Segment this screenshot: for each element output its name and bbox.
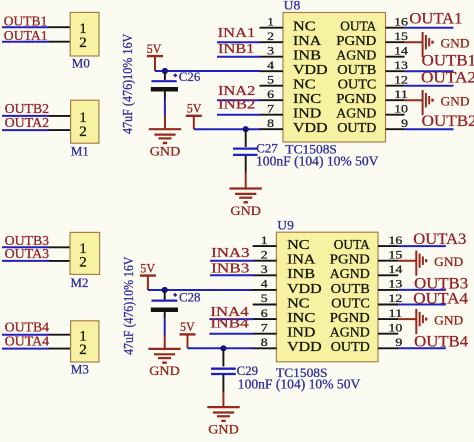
wire INB1 to U8 pin 3 bbox=[217, 56, 260, 58]
power port 5V (lower left) bbox=[140, 261, 156, 290]
wire 5V to U9 pin 8 (VDD) bbox=[188, 347, 254, 349]
connector M3 body bbox=[71, 321, 99, 362]
wire INA4 to U9 pin 6 bbox=[209, 318, 253, 320]
U8 pin 1 (NC) bbox=[260, 16, 316, 33]
ground GND at U9 pins 11/10 bbox=[398, 309, 463, 334]
power port 5V (upper mid) bbox=[186, 102, 202, 130]
svg-text:OUTB1: OUTB1 bbox=[422, 53, 474, 70]
svg-text:5V: 5V bbox=[180, 320, 195, 334]
svg-text:5V: 5V bbox=[140, 261, 155, 275]
svg-text:GND: GND bbox=[434, 255, 463, 269]
wire U8 pin 16 OUTA1 bbox=[405, 27, 454, 29]
svg-text:3: 3 bbox=[267, 45, 274, 57]
wire INA1 to U8 pin 2 bbox=[217, 41, 260, 43]
ground stub (under C27) bbox=[245, 173, 247, 189]
svg-text:INA: INA bbox=[293, 33, 321, 48]
svg-text:OUTB: OUTB bbox=[337, 62, 376, 77]
svg-text:PGND: PGND bbox=[336, 33, 376, 48]
junction at C26/VDD node bbox=[162, 68, 168, 74]
svg-text:13: 13 bbox=[394, 60, 408, 72]
svg-text:INB2: INB2 bbox=[218, 97, 255, 112]
svg-text:7: 7 bbox=[261, 322, 268, 334]
M3 pin 1 bbox=[49, 334, 71, 336]
svg-text:AGND: AGND bbox=[336, 48, 376, 63]
svg-text:NC: NC bbox=[293, 19, 316, 34]
svg-text:4: 4 bbox=[267, 60, 274, 72]
capacitor C27 plate 1 bbox=[233, 147, 258, 149]
wire OUTA3 to M2 bbox=[2, 260, 49, 262]
U8 pin 9 (OUTD) bbox=[337, 118, 408, 135]
connector M1 body bbox=[71, 100, 99, 143]
U9 pin 6 (INC) bbox=[253, 308, 316, 325]
U8 pin 14 (AGND) bbox=[336, 45, 408, 62]
svg-text:VDD: VDD bbox=[287, 339, 322, 354]
junction at C27/VDD node bbox=[243, 126, 249, 132]
svg-text:OUTB2: OUTB2 bbox=[5, 102, 50, 117]
capacitor C29 plate 2 bbox=[211, 373, 236, 375]
ground GND (under C27) bbox=[230, 189, 262, 218]
svg-text:OUTC: OUTC bbox=[338, 77, 377, 92]
ground GND (under C28) bbox=[148, 349, 180, 378]
svg-text:IND: IND bbox=[293, 106, 321, 121]
svg-text:8: 8 bbox=[267, 118, 274, 130]
svg-text:OUTA: OUTA bbox=[334, 237, 370, 252]
svg-text:INC: INC bbox=[287, 310, 315, 325]
svg-text:5: 5 bbox=[261, 293, 268, 305]
svg-text:13: 13 bbox=[388, 279, 402, 291]
connector M2 body bbox=[70, 232, 100, 274]
svg-text:TC1508S: TC1508S bbox=[276, 365, 328, 380]
svg-text:M2: M2 bbox=[71, 275, 89, 290]
svg-text:5V: 5V bbox=[187, 102, 202, 116]
U9 pin 10 (AGND) bbox=[330, 322, 403, 339]
connector M0 body bbox=[70, 12, 99, 56]
capacitor C27 stub top bbox=[245, 130, 247, 147]
U9 pin 5 (NC) bbox=[253, 293, 310, 310]
svg-text:OUTA2: OUTA2 bbox=[5, 116, 50, 131]
svg-text:7: 7 bbox=[267, 103, 274, 115]
wire U9 pin 13 OUTB3 bbox=[398, 289, 446, 291]
svg-text:GND: GND bbox=[230, 203, 261, 218]
U9 pin 9 (OUTD) bbox=[331, 337, 403, 354]
svg-text:11: 11 bbox=[394, 89, 408, 101]
U8 pin 11 (PGND) bbox=[336, 89, 408, 106]
svg-text:OUTA: OUTA bbox=[340, 19, 376, 34]
svg-text:PGND: PGND bbox=[330, 310, 370, 325]
wire OUTB3 to M2 bbox=[2, 246, 49, 248]
svg-text:OUTC: OUTC bbox=[331, 295, 370, 310]
svg-text:47uF (476)10% 16V: 47uF (476)10% 16V bbox=[121, 256, 137, 354]
svg-text:U8: U8 bbox=[284, 0, 301, 13]
U8 pin 8 (VDD) bbox=[260, 118, 328, 135]
U9 pin 11 (PGND) bbox=[330, 308, 403, 325]
svg-text:TC1508S: TC1508S bbox=[285, 142, 337, 157]
wire OUTA4 to M3 bbox=[2, 348, 49, 350]
capacitor C27 plate 2 bbox=[233, 154, 258, 156]
svg-text:PGND: PGND bbox=[336, 91, 376, 106]
svg-text:NC: NC bbox=[287, 237, 310, 252]
ground stub (under C29) bbox=[222, 392, 224, 407]
wire C26 to GND bbox=[164, 99, 166, 116]
capacitor C26 positive plate bbox=[151, 80, 176, 82]
svg-text:GND: GND bbox=[441, 36, 470, 50]
U9 pin 12 (OUTC) bbox=[331, 293, 402, 310]
U8 pin 6 (INC) bbox=[260, 89, 322, 106]
M0 pin 2 bbox=[49, 41, 71, 43]
svg-text:VDD: VDD bbox=[293, 62, 328, 77]
ground GND at U9 pins 15/14 bbox=[398, 251, 463, 276]
M2 pin 2 bbox=[49, 260, 70, 262]
svg-text:OUTA1: OUTA1 bbox=[409, 11, 462, 28]
svg-text:1: 1 bbox=[261, 235, 268, 247]
wire INB3 to U9 pin 3 bbox=[210, 274, 254, 276]
U9 pin 1 (NC) bbox=[253, 235, 310, 252]
svg-text:GND: GND bbox=[149, 363, 180, 378]
capacitor C29 stub bottom bbox=[222, 375, 224, 392]
capacitor C29 plate 1 bbox=[211, 368, 236, 370]
svg-text:12: 12 bbox=[394, 74, 408, 86]
svg-text:AGND: AGND bbox=[336, 106, 376, 121]
svg-text:VDD: VDD bbox=[287, 281, 322, 296]
op-amp U9 body bbox=[276, 232, 378, 362]
svg-text:2: 2 bbox=[79, 342, 87, 358]
capacitor C26 stub bottom bbox=[164, 92, 166, 100]
wire OUTB4 to M3 bbox=[2, 334, 49, 336]
svg-text:2: 2 bbox=[267, 31, 274, 43]
U9 pin 13 (OUTB) bbox=[331, 279, 403, 296]
svg-text:2: 2 bbox=[79, 35, 87, 51]
svg-text:10: 10 bbox=[388, 322, 402, 334]
M1 pin 1 bbox=[49, 115, 71, 117]
capacitor C28 negative plate bbox=[151, 308, 178, 313]
wire INA3 to U9 pin 2 bbox=[210, 260, 254, 262]
U8 pin 15 (PGND) bbox=[336, 31, 408, 48]
svg-text:15: 15 bbox=[394, 31, 408, 43]
svg-text:INA3: INA3 bbox=[211, 246, 250, 261]
svg-text:2: 2 bbox=[79, 124, 87, 140]
svg-text:INB4: INB4 bbox=[210, 316, 248, 331]
U8 pin 5 (NC) bbox=[260, 74, 316, 91]
capacitor C26 plus mark bbox=[173, 73, 177, 77]
svg-text:6: 6 bbox=[267, 89, 274, 101]
svg-text:INA1: INA1 bbox=[218, 26, 256, 41]
M1 pin 2 bbox=[49, 129, 71, 131]
svg-text:2: 2 bbox=[79, 254, 87, 270]
U8 pin 16 (OUTA) bbox=[340, 16, 408, 33]
svg-text:M1: M1 bbox=[71, 143, 89, 158]
svg-text:C26: C26 bbox=[179, 69, 201, 84]
svg-text:OUTD: OUTD bbox=[331, 339, 370, 354]
svg-text:OUTD: OUTD bbox=[337, 120, 376, 135]
wire OUTB1 to M0 bbox=[2, 26, 49, 28]
svg-text:4: 4 bbox=[261, 279, 268, 291]
svg-text:OUTB4: OUTB4 bbox=[5, 321, 50, 336]
svg-text:M0: M0 bbox=[72, 55, 90, 70]
svg-text:C28: C28 bbox=[179, 289, 201, 304]
svg-text:5: 5 bbox=[267, 74, 274, 86]
U9 pin 14 (AGND) bbox=[330, 264, 403, 281]
svg-text:GND: GND bbox=[441, 94, 470, 108]
svg-text:9: 9 bbox=[395, 337, 402, 349]
ground GND at U8 pins 15/14 bbox=[405, 32, 470, 57]
svg-text:5V: 5V bbox=[147, 42, 162, 56]
wire 5V to U8 pin 4 (VDD) bbox=[155, 70, 260, 72]
svg-text:AGND: AGND bbox=[330, 266, 370, 281]
svg-text:14: 14 bbox=[388, 264, 402, 276]
ground GND at U8 pins 11/10 bbox=[405, 90, 470, 115]
wire INB4 to U9 pin 7 bbox=[209, 333, 253, 335]
svg-text:9: 9 bbox=[401, 118, 408, 130]
svg-text:M3: M3 bbox=[71, 361, 89, 376]
U8 pin 10 (AGND) bbox=[336, 103, 408, 120]
op-amp U8 body bbox=[283, 13, 386, 143]
U9 pin 2 (INA) bbox=[253, 249, 316, 266]
capacitor C29 stub top bbox=[222, 349, 224, 366]
power port 5V (upper left) bbox=[147, 42, 163, 71]
svg-text:12: 12 bbox=[388, 293, 402, 305]
junction at C28/VDD node bbox=[162, 287, 168, 293]
capacitor C28 plus mark bbox=[173, 293, 177, 297]
svg-text:1: 1 bbox=[267, 16, 274, 28]
svg-text:VDD: VDD bbox=[293, 120, 328, 135]
svg-text:INA: INA bbox=[287, 252, 315, 267]
svg-text:14: 14 bbox=[394, 45, 408, 57]
svg-text:47uF (476)10% 16V: 47uF (476)10% 16V bbox=[120, 34, 136, 134]
svg-text:INB1: INB1 bbox=[218, 42, 254, 57]
M0 pin 1 bbox=[49, 26, 71, 28]
M2 pin 1 bbox=[49, 246, 70, 248]
svg-text:GND: GND bbox=[208, 421, 239, 436]
U9 pin 4 (VDD) bbox=[253, 279, 322, 296]
svg-text:GND: GND bbox=[150, 144, 181, 159]
svg-text:AGND: AGND bbox=[330, 325, 370, 340]
svg-text:10: 10 bbox=[394, 103, 408, 115]
svg-text:U9: U9 bbox=[277, 217, 294, 232]
capacitor C27 stub bottom bbox=[245, 156, 247, 173]
wire U8 pin 12 OUTA2 bbox=[405, 85, 454, 87]
svg-text:INB: INB bbox=[293, 48, 321, 63]
svg-text:OUTA3: OUTA3 bbox=[5, 247, 50, 262]
wire U9 pin 12 OUTA4 bbox=[398, 304, 446, 306]
svg-text:8: 8 bbox=[261, 337, 268, 349]
svg-text:OUTA2: OUTA2 bbox=[421, 70, 474, 87]
svg-text:GND: GND bbox=[434, 313, 463, 327]
svg-text:2: 2 bbox=[261, 249, 268, 261]
U8 pin 4 (VDD) bbox=[260, 60, 328, 77]
wire C28 to GND bbox=[164, 319, 166, 335]
svg-text:OUTA4: OUTA4 bbox=[5, 335, 50, 350]
power port 5V (lower mid) bbox=[180, 320, 196, 348]
wire U9 pin 16 OUTA3 bbox=[398, 245, 446, 247]
svg-text:IND: IND bbox=[287, 325, 315, 340]
U9 pin 3 (INB) bbox=[253, 264, 315, 281]
junction at C29/VDD node bbox=[220, 345, 226, 351]
svg-text:3: 3 bbox=[261, 264, 268, 276]
U9 pin 8 (VDD) bbox=[253, 337, 322, 354]
wire OUTB2 to M1 bbox=[2, 115, 49, 117]
svg-text:PGND: PGND bbox=[330, 252, 370, 267]
svg-text:NC: NC bbox=[293, 77, 316, 92]
svg-text:16: 16 bbox=[388, 235, 402, 247]
capacitor C26 negative plate bbox=[151, 87, 178, 92]
wire 5V to U9 pin 4 (VDD) bbox=[148, 289, 254, 291]
ground GND (under C29) bbox=[207, 407, 239, 436]
U8 pin 2 (INA) bbox=[260, 31, 322, 48]
capacitor C28 stub top bbox=[164, 291, 166, 300]
wire U8 pin 9 OUTB2 bbox=[405, 128, 454, 130]
M3 pin 2 bbox=[49, 348, 71, 350]
svg-text:6: 6 bbox=[261, 308, 268, 320]
svg-text:INB: INB bbox=[287, 266, 315, 281]
wire 5V to U8 pin 8 (VDD) bbox=[194, 128, 260, 130]
svg-text:15: 15 bbox=[388, 249, 402, 261]
wire OUTA1 to M0 bbox=[2, 41, 49, 43]
svg-text:11: 11 bbox=[388, 308, 402, 320]
wire OUTA2 to M1 bbox=[2, 129, 49, 131]
svg-text:OUTB2: OUTB2 bbox=[422, 113, 474, 130]
svg-text:NC: NC bbox=[287, 295, 310, 310]
U9 pin 7 (IND) bbox=[253, 322, 316, 339]
wire INB2 to U8 pin 7 bbox=[217, 114, 260, 116]
wire U9 pin 9 OUTB4 bbox=[398, 347, 446, 349]
capacitor C26 stub top bbox=[164, 72, 166, 80]
capacitor C28 positive plate bbox=[152, 300, 178, 302]
svg-text:16: 16 bbox=[394, 16, 408, 28]
U8 pin 3 (INB) bbox=[260, 45, 322, 62]
capacitor C28 stub bottom bbox=[164, 312, 166, 319]
ground stub (under C26) bbox=[164, 116, 166, 130]
wire INA2 to U8 pin 6 bbox=[217, 99, 260, 101]
ground stub (under C28) bbox=[164, 335, 166, 349]
U9 pin 16 (OUTA) bbox=[334, 235, 403, 252]
wire U8 pin 13 OUTB1 bbox=[405, 70, 454, 72]
U8 pin 12 (OUTC) bbox=[338, 74, 408, 91]
ground GND (under C26) bbox=[149, 129, 181, 158]
U8 pin 13 (OUTB) bbox=[337, 60, 408, 77]
svg-text:INC: INC bbox=[293, 91, 321, 106]
U8 pin 7 (IND) bbox=[260, 103, 322, 120]
U9 pin 15 (PGND) bbox=[330, 249, 403, 266]
svg-text:OUTB: OUTB bbox=[331, 281, 370, 296]
